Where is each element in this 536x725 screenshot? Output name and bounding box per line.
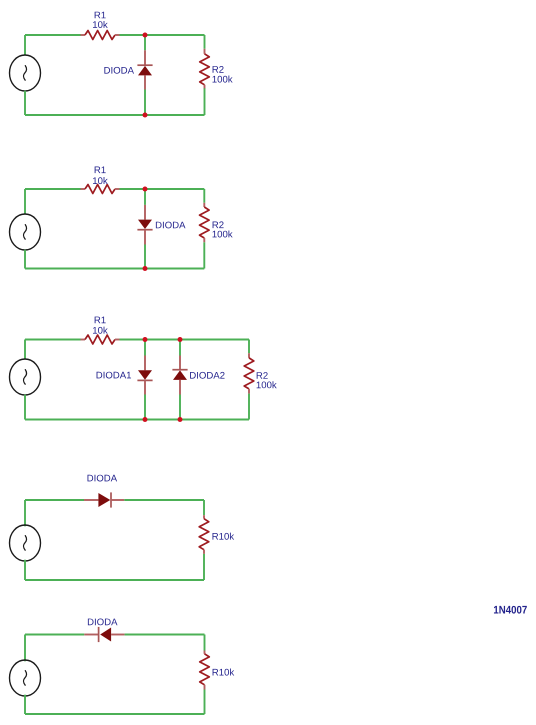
- wire C1 diode branch lower: [144, 90, 146, 116]
- label R10k: [213, 669, 235, 676]
- wire C5 left lower: [24, 695, 26, 714]
- wire C4 top rail left: [25, 499, 84, 501]
- wire C3 top rail right: [120, 339, 250, 341]
- label DIODA (circuit 4): [87, 475, 117, 482]
- junction node C3 top-right: [178, 337, 183, 342]
- label DIODA (circuit 1): [104, 67, 134, 74]
- value 100k: [213, 76, 233, 83]
- wire C5 left upper: [24, 635, 26, 662]
- wire C2 bottom rail: [25, 268, 204, 270]
- wire C3 diode1 branch upper: [144, 340, 146, 356]
- label DIODA2: [190, 372, 224, 379]
- wire C3 diode2 branch upper: [179, 340, 181, 356]
- part number 1N4007: [494, 606, 527, 614]
- wire C2 left upper: [24, 189, 26, 214]
- AC source V4 (circuit 4): [10, 525, 41, 561]
- wire C2 right lower: [203, 242, 205, 268]
- wire C4 right lower: [203, 554, 205, 580]
- wire C3 right lower: [248, 394, 250, 420]
- label R2: [257, 372, 268, 379]
- wire C2 top rail right: [120, 188, 205, 190]
- junction node C2 bottom: [143, 266, 148, 271]
- wire C3 top rail left: [25, 339, 81, 341]
- junction node C2 top: [143, 187, 148, 192]
- wire C3 left upper: [24, 340, 26, 360]
- label R2: [213, 221, 224, 228]
- wire C2 left lower: [24, 250, 26, 269]
- label R1: [95, 12, 106, 19]
- AC source V3 (circuit 3): [10, 359, 41, 395]
- value 10k: [93, 21, 108, 28]
- wire C3 left lower: [24, 395, 26, 420]
- diode DIODA1 (circuit 3): [137, 356, 152, 395]
- wire C4 right upper: [203, 500, 205, 515]
- wire C1 left lower: [24, 91, 26, 115]
- wire C5 top rail right: [125, 634, 205, 636]
- value 10k: [93, 177, 108, 184]
- junction node C3 bottom-right: [178, 417, 183, 422]
- diode DIODA (circuit 2): [137, 205, 152, 245]
- wire C1 right lower: [204, 88, 206, 115]
- wire C2 top rail left: [25, 188, 81, 190]
- resistor R1 (circuit 1): [81, 31, 120, 40]
- wire C1 top rail left: [25, 34, 81, 36]
- resistor R1 (circuit 3): [81, 335, 120, 344]
- junction node C3 top-left: [143, 337, 148, 342]
- resistor R2 (circuit 2): [200, 203, 210, 243]
- label R1: [95, 167, 106, 174]
- AC source V1 (circuit 1): [10, 55, 41, 91]
- wire C3 right upper: [248, 340, 250, 354]
- label R10k: [212, 533, 234, 540]
- wire C1 right upper: [204, 35, 206, 49]
- wire C1 bottom rail: [25, 114, 205, 116]
- wire C5 right upper: [204, 635, 206, 651]
- value 10k: [93, 327, 108, 334]
- wire C5 top rail left: [25, 634, 84, 636]
- resistor R10k (circuit 5): [200, 651, 210, 690]
- wire C3 bottom rail: [25, 419, 249, 421]
- resistor R2 (circuit 1): [200, 49, 210, 89]
- wire C2 right upper: [203, 189, 205, 203]
- wire C5 right lower: [204, 690, 206, 715]
- label DIODA (circuit 2): [156, 222, 186, 229]
- label DIODA (circuit 5): [88, 619, 118, 626]
- wire C1 diode branch upper: [144, 35, 146, 50]
- diode DIODA2 (circuit 3): [172, 356, 187, 395]
- junction node C1 bottom: [143, 113, 148, 118]
- label DIODA1: [97, 372, 131, 379]
- junction node C1 top: [143, 33, 148, 38]
- AC source V5 (circuit 5): [10, 660, 41, 696]
- label R2: [213, 66, 224, 73]
- wire C1 left upper: [24, 35, 26, 55]
- resistor R10k (circuit 4): [199, 515, 209, 554]
- wire C2 diode branch upper: [144, 189, 146, 205]
- wire C1 top rail right: [120, 34, 205, 36]
- wire C3 diode2 branch lower: [179, 395, 181, 420]
- diode DIODA (circuit 1): [137, 50, 152, 89]
- wire C4 left upper: [24, 500, 26, 526]
- wire C2 diode branch lower: [144, 245, 146, 269]
- wire C3 diode1 branch lower: [144, 395, 146, 420]
- label R1: [95, 317, 106, 324]
- value 100k: [257, 381, 277, 388]
- junction node C3 bottom-left: [143, 417, 148, 422]
- diode DIODA (circuit 4): [84, 492, 124, 507]
- AC source V2 (circuit 2): [10, 214, 41, 250]
- value 100k: [213, 230, 233, 237]
- resistor R2 (circuit 3): [244, 353, 254, 393]
- wire C5 bottom rail: [25, 713, 205, 715]
- resistor R1 (circuit 2): [81, 185, 120, 194]
- wire C4 bottom rail: [25, 579, 204, 581]
- diode DIODA (circuit 5): [84, 627, 124, 642]
- wire C4 left lower: [24, 560, 26, 580]
- wire C4 top rail right: [124, 499, 204, 501]
